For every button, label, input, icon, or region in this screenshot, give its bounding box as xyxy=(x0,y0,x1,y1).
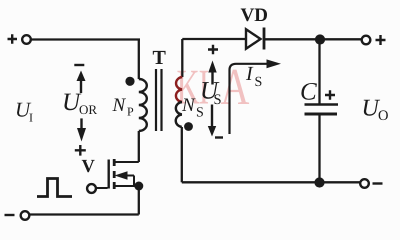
transistor V label xyxy=(82,160,95,172)
label N_S subscript xyxy=(197,107,203,116)
junction mosfet source dot xyxy=(134,182,143,191)
diode VD triangle xyxy=(246,29,261,49)
label input plus sign xyxy=(8,34,18,44)
terminal input minus circle xyxy=(21,211,30,220)
transistor drain lead xyxy=(115,161,139,163)
label U_I main xyxy=(17,103,31,117)
diode VD cathode bar xyxy=(263,28,266,50)
label C xyxy=(301,83,317,100)
capacitor plus sign xyxy=(325,90,335,100)
watermark letter A xyxy=(221,70,249,104)
label U_O subscript xyxy=(379,110,388,120)
capacitor C top plate xyxy=(305,103,339,105)
label N_P subscript xyxy=(127,108,133,116)
terminal input plus circle xyxy=(22,35,31,44)
label I_S subscript xyxy=(255,77,261,86)
transistor body arrow xyxy=(124,176,134,187)
wire secondary top rail to diode xyxy=(182,38,246,40)
inductor secondary NS winding red part xyxy=(176,77,182,102)
voltage indicator U_OR down arrow xyxy=(80,118,82,128)
label I_S main xyxy=(246,67,254,80)
transformer T label xyxy=(153,51,166,64)
voltage indicator U_OR plus sign xyxy=(75,145,86,156)
wire primary column top xyxy=(138,40,140,80)
watermark letter I xyxy=(200,71,208,104)
voltage indicator U_S down arrow xyxy=(211,105,213,128)
wire capacitor bottom branch xyxy=(318,114,320,183)
label N_S main xyxy=(182,99,196,111)
transistor source lead xyxy=(115,185,139,187)
label output minus sign xyxy=(373,182,383,184)
transistor gate lead xyxy=(96,187,107,189)
terminal output minus circle xyxy=(360,179,369,188)
wire secondary column top xyxy=(181,39,183,77)
transistor channel dashes xyxy=(113,159,116,189)
wire bottom-left rail xyxy=(30,213,139,215)
label U_OR subscript xyxy=(80,105,98,114)
label U_OR main xyxy=(64,94,81,111)
voltage indicator U_OR minus xyxy=(74,64,84,66)
label U_I subscript xyxy=(29,114,32,122)
transformer core xyxy=(156,69,162,131)
voltage indicator U_S up arrow xyxy=(211,70,213,85)
wire secondary column bottom xyxy=(181,127,183,182)
wire bottom output rail xyxy=(182,181,360,183)
transformer secondary polarity dot xyxy=(184,122,193,131)
inductor secondary NS winding black part xyxy=(176,102,182,127)
transistor gate circle xyxy=(87,184,96,193)
wire primary bottom to drain xyxy=(138,131,140,162)
transistor gate bar xyxy=(107,160,109,189)
pulse drive symbol xyxy=(37,179,72,197)
label output plus sign xyxy=(376,35,386,45)
wire mosfet source down xyxy=(138,186,140,215)
wire diode to output plus xyxy=(265,38,362,40)
junction top right dot xyxy=(315,34,325,44)
label N_P main xyxy=(112,99,126,111)
inductor primary NP winding xyxy=(139,79,147,131)
capacitor C bottom plate xyxy=(305,113,338,116)
current arrow I_S xyxy=(230,64,269,134)
wire capacitor top branch xyxy=(318,40,320,104)
label U_S main xyxy=(202,82,219,99)
voltage indicator U_OR up arrow xyxy=(80,80,82,93)
transformer primary polarity dot xyxy=(125,77,134,86)
label U_S subscript xyxy=(214,94,220,104)
wire top-left rail xyxy=(31,38,140,40)
voltage indicator U_S minus sign xyxy=(215,136,223,138)
terminal output plus circle xyxy=(362,36,371,45)
label input minus sign xyxy=(5,214,15,216)
label U_O main xyxy=(364,100,380,116)
watermark letter K xyxy=(177,71,199,104)
label VD xyxy=(241,9,267,22)
voltage indicator U_S plus sign xyxy=(208,45,218,55)
junction bottom right dot xyxy=(314,177,324,187)
